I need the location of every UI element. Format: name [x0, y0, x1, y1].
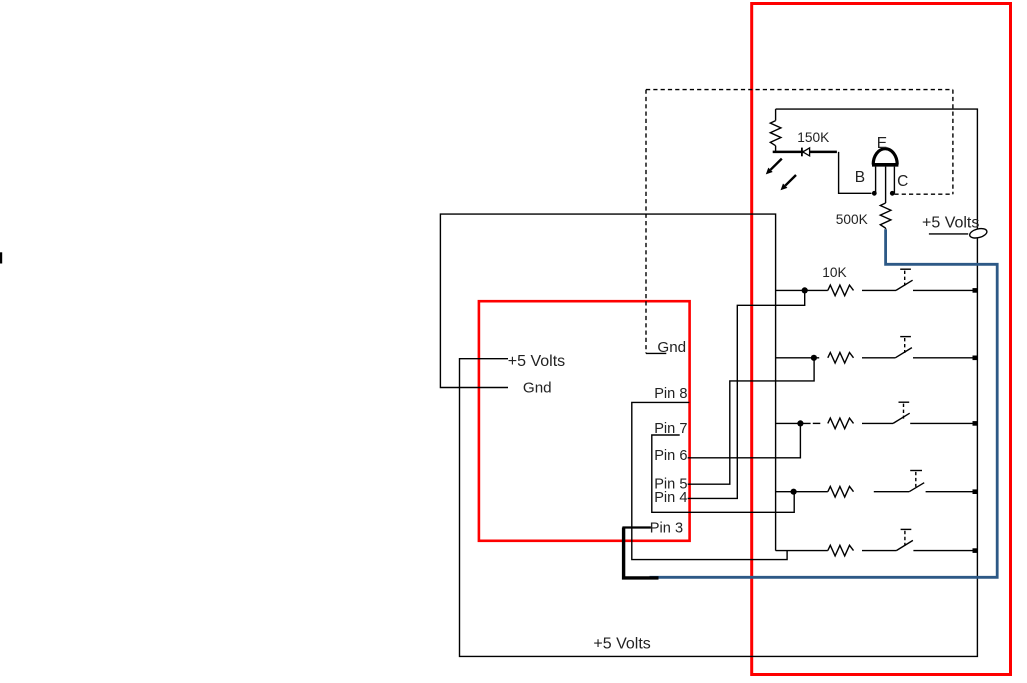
svg-text:Gnd: Gnd [523, 379, 552, 396]
svg-text:E: E [877, 135, 887, 152]
svg-text:10K: 10K [822, 265, 846, 280]
svg-text:Pin 7: Pin 7 [654, 421, 687, 437]
svg-text:+5 Volts: +5 Volts [593, 635, 650, 652]
svg-text:150K: 150K [797, 130, 829, 145]
svg-text:+5 Volts: +5 Volts [922, 215, 979, 232]
svg-text:B: B [855, 169, 865, 186]
svg-text:500K: 500K [836, 212, 868, 227]
svg-text:+5 Volts: +5 Volts [508, 353, 565, 370]
svg-text:Pin 8: Pin 8 [654, 386, 687, 402]
svg-text:Gnd: Gnd [657, 339, 686, 356]
svg-text:Pin 3: Pin 3 [650, 520, 683, 536]
svg-text:Pin 4: Pin 4 [654, 490, 687, 506]
svg-text:C: C [897, 173, 908, 190]
svg-text:Pin 6: Pin 6 [654, 448, 687, 464]
